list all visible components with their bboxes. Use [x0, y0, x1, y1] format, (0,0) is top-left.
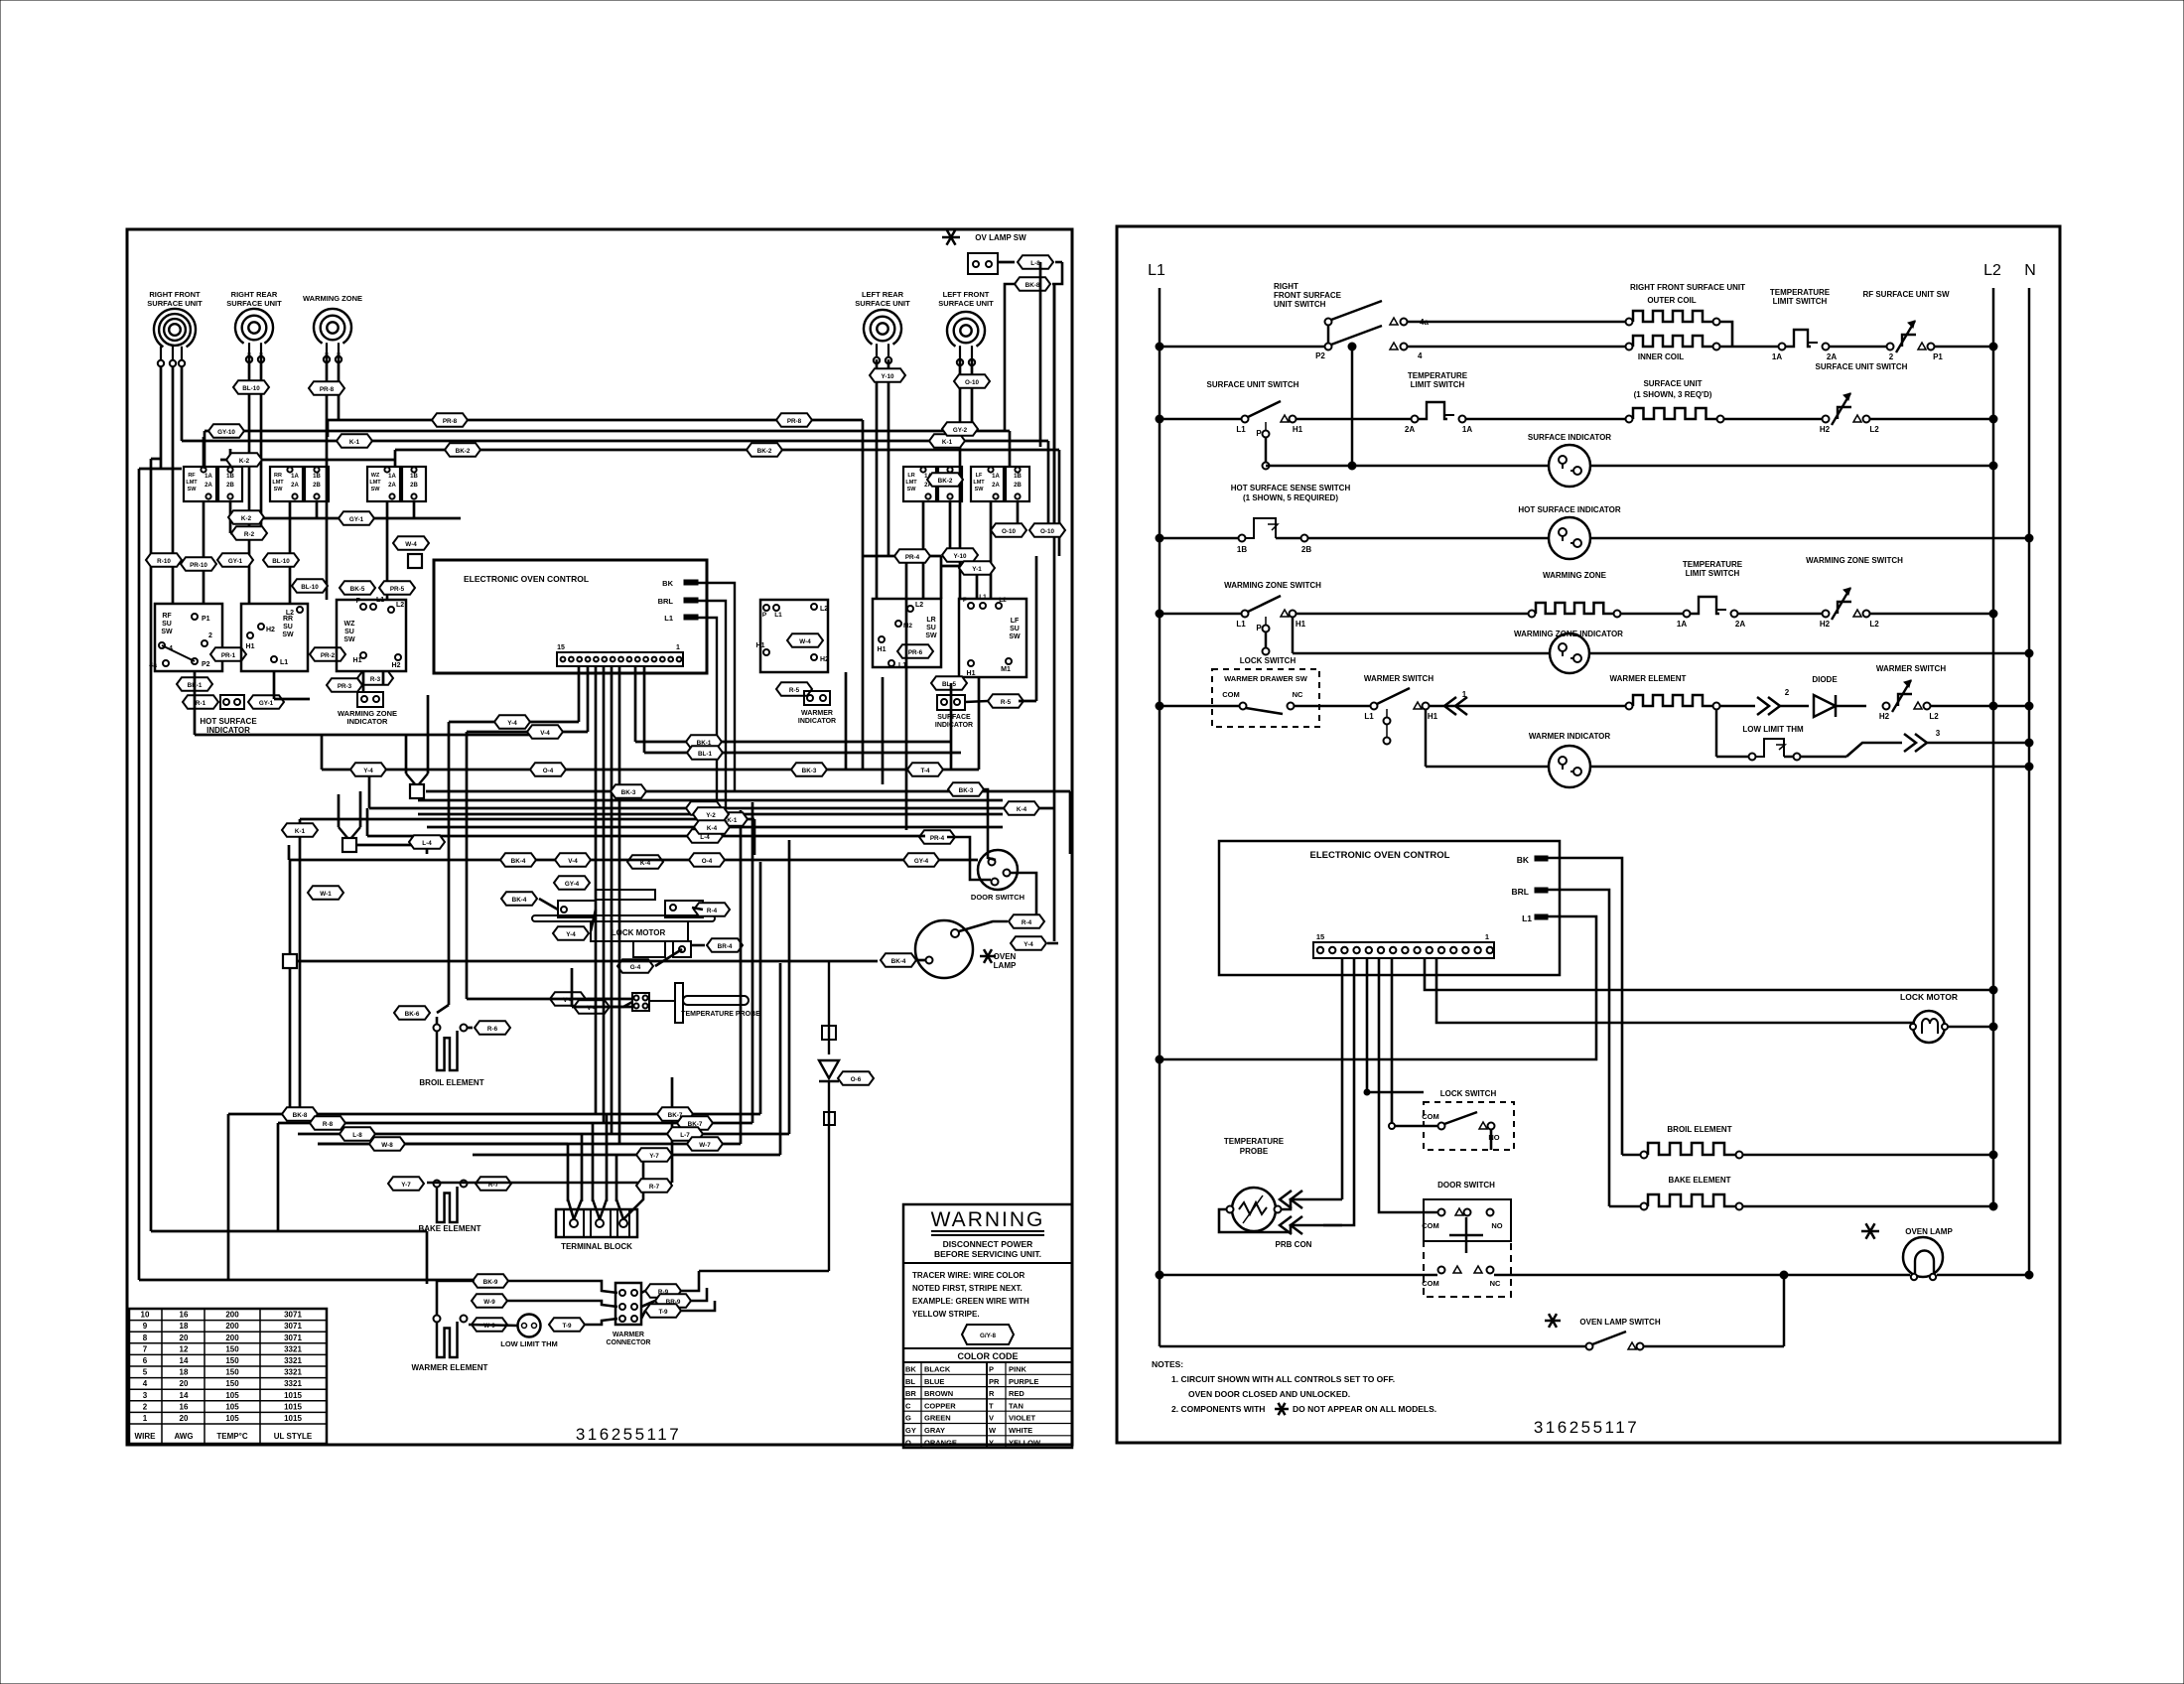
svg-text:T-9: T-9 — [658, 1309, 668, 1316]
svg-text:16: 16 — [180, 1402, 189, 1411]
svg-text:(1 SHOWN, 3 REQ'D): (1 SHOWN, 3 REQ'D) — [1634, 390, 1712, 399]
svg-text:3071: 3071 — [284, 1311, 302, 1320]
connector BL-10 — [292, 579, 328, 593]
svg-text:BLUE: BLUE — [924, 1377, 944, 1386]
svg-text:105: 105 — [225, 1414, 239, 1423]
svg-text:20: 20 — [180, 1333, 189, 1342]
wire — [612, 1002, 632, 1007]
connector PR-4 — [894, 549, 930, 563]
svg-text:GY-2: GY-2 — [953, 427, 968, 434]
svg-text:HOT SURFACE INDICATOR: HOT SURFACE INDICATOR — [1518, 505, 1620, 514]
connector BK-2 — [445, 443, 480, 457]
svg-text:PR-8: PR-8 — [787, 418, 802, 425]
connector L-4 — [687, 829, 723, 843]
svg-text:2B: 2B — [226, 483, 234, 489]
svg-text:H2: H2 — [266, 627, 275, 633]
svg-text:L1: L1 — [376, 597, 384, 604]
temperature probe — [675, 983, 683, 1023]
svg-text:NOTES:: NOTES: — [1152, 1359, 1183, 1369]
wire — [274, 698, 310, 701]
wire warmer element top — [437, 1281, 473, 1315]
svg-text:SU: SU — [283, 624, 293, 631]
diode — [822, 1026, 836, 1040]
svg-text:COPPER: COPPER — [924, 1401, 956, 1410]
svg-text:2A: 2A — [205, 483, 212, 489]
connector W-1 — [308, 886, 343, 900]
svg-text:K-1: K-1 — [349, 439, 360, 446]
connector BK-1 — [686, 735, 722, 749]
connector BK-4 lamp — [881, 953, 916, 967]
svg-text:H2: H2 — [820, 656, 829, 663]
wire — [578, 666, 581, 722]
connector GY-10 — [208, 424, 244, 438]
svg-text:3321: 3321 — [284, 1379, 302, 1388]
connector BK-5 — [340, 581, 375, 595]
connector GY-2 — [942, 422, 978, 436]
svg-text:TEMPERATURE: TEMPERATURE — [1683, 560, 1743, 569]
svg-text:14: 14 — [180, 1356, 189, 1365]
connector K-2 — [228, 510, 264, 524]
svg-text:P1: P1 — [202, 616, 210, 623]
junction — [283, 954, 297, 968]
connector V-4 — [527, 725, 563, 739]
svg-text:SW: SW — [975, 487, 985, 492]
svg-text:PR-8: PR-8 — [320, 386, 335, 393]
connector PR-8 — [309, 381, 344, 395]
svg-text:TEMPERATURE PROBE: TEMPERATURE PROBE — [681, 1011, 760, 1018]
wire gauge table — [129, 1309, 327, 1444]
svg-text:SW: SW — [274, 487, 284, 492]
svg-text:TEMP°C: TEMP°C — [216, 1432, 247, 1441]
svg-text:L2: L2 — [286, 610, 294, 617]
svg-text:V: V — [989, 1414, 994, 1423]
connector Y-2 — [693, 807, 729, 821]
svg-text:2: 2 — [1785, 688, 1790, 697]
wire — [539, 899, 558, 910]
svg-text:L1: L1 — [280, 659, 288, 666]
svg-text:OVEN: OVEN — [994, 952, 1017, 961]
wire — [328, 419, 863, 422]
svg-text:SW: SW — [188, 487, 198, 492]
connector BK-9 — [473, 1274, 508, 1288]
svg-text:W-1: W-1 — [320, 891, 332, 898]
svg-text:15: 15 — [557, 644, 565, 651]
wire — [289, 968, 292, 1114]
svg-text:DISCONNECT POWER: DISCONNECT POWER — [943, 1239, 1033, 1249]
svg-text:SW: SW — [282, 631, 294, 638]
connector Y-4 — [686, 801, 722, 815]
svg-text:RED: RED — [1009, 1389, 1024, 1398]
svg-text:COM: COM — [1222, 690, 1240, 699]
wire — [949, 501, 952, 556]
connector PR-5 — [379, 581, 415, 595]
svg-text:RIGHT FRONT SURFACE UNIT: RIGHT FRONT SURFACE UNIT — [1630, 283, 1745, 292]
svg-text:SU: SU — [1010, 626, 1020, 632]
svg-text:LR: LR — [926, 617, 935, 624]
svg-text:2A: 2A — [992, 483, 1000, 489]
svg-text:LF: LF — [1011, 618, 1020, 625]
connector Y-7 — [636, 1148, 672, 1162]
svg-text:PR-4: PR-4 — [930, 835, 945, 842]
svg-text:H1: H1 — [967, 670, 976, 677]
svg-text:GY-1: GY-1 — [228, 558, 243, 565]
wire — [386, 501, 389, 600]
svg-text:BK-8: BK-8 — [1025, 282, 1040, 289]
svg-text:V-4: V-4 — [568, 858, 578, 865]
svg-text:L2: L2 — [1929, 712, 1939, 721]
svg-text:P: P — [989, 1365, 994, 1374]
connector Y-4 lamp — [1011, 936, 1046, 950]
svg-text:O: O — [905, 1438, 911, 1447]
wire rung1 upper branch — [1408, 321, 1629, 324]
svg-text:WARNING: WARNING — [931, 1208, 1045, 1231]
junction — [342, 838, 356, 852]
connector BK-2 — [747, 443, 782, 457]
svg-text:L2: L2 — [1869, 425, 1879, 434]
svg-text:BK: BK — [662, 579, 673, 588]
connector R-10 — [146, 553, 182, 567]
svg-text:3071: 3071 — [284, 1333, 302, 1342]
svg-text:OUTER COIL: OUTER COIL — [1647, 296, 1696, 305]
svg-text:SURFACE UNIT: SURFACE UNIT — [938, 299, 994, 308]
wire — [965, 701, 988, 702]
wire — [905, 556, 908, 830]
svg-text:BR-4: BR-4 — [718, 943, 733, 950]
wire — [418, 773, 428, 785]
svg-text:T: T — [989, 1401, 994, 1410]
wire — [260, 352, 263, 533]
svg-text:18: 18 — [180, 1322, 189, 1331]
svg-text:H2: H2 — [392, 662, 401, 669]
wire — [182, 440, 1048, 443]
wire — [449, 721, 579, 724]
wire — [405, 735, 408, 773]
svg-text:H2: H2 — [1820, 425, 1831, 434]
wire — [998, 261, 1015, 264]
svg-text:H2: H2 — [1820, 620, 1831, 629]
svg-text:1B: 1B — [410, 474, 418, 480]
wire — [339, 827, 348, 839]
svg-text:K-1: K-1 — [295, 828, 306, 835]
wire — [469, 1325, 517, 1326]
terminal block — [556, 1209, 637, 1237]
svg-text:K-2: K-2 — [241, 515, 252, 522]
svg-text:O-10: O-10 — [965, 379, 979, 386]
svg-text:SURFACE UNIT SWITCH: SURFACE UNIT SWITCH — [1207, 380, 1299, 389]
wire — [427, 826, 1003, 829]
svg-text:BRL: BRL — [658, 597, 674, 606]
svg-text:SURFACE UNIT SWITCH: SURFACE UNIT SWITCH — [1816, 362, 1908, 371]
terminal strip 15..1 — [1313, 942, 1494, 958]
wire — [572, 1006, 632, 1009]
svg-text:H2: H2 — [1879, 712, 1890, 721]
connector BK-4 — [500, 853, 536, 867]
wire — [473, 1154, 780, 1157]
connector V-4b — [574, 1000, 610, 1014]
connector BK-8 — [282, 1107, 318, 1121]
wire — [289, 860, 292, 954]
wire — [603, 666, 606, 1123]
wire — [426, 1231, 429, 1284]
svg-text:105: 105 — [225, 1402, 239, 1411]
wire — [338, 352, 341, 420]
svg-text:1A: 1A — [291, 474, 299, 480]
svg-text:INDICATOR: INDICATOR — [347, 717, 389, 726]
svg-text:L1: L1 — [1364, 712, 1374, 721]
wire — [321, 735, 324, 770]
svg-text:H1: H1 — [878, 646, 887, 653]
svg-text:T-4: T-4 — [920, 768, 930, 774]
svg-text:L1: L1 — [979, 594, 987, 601]
limit switch RR LMT SW — [270, 467, 303, 501]
wire — [950, 683, 953, 770]
wire — [753, 819, 756, 855]
connector W-4 — [393, 536, 429, 550]
svg-text:316255117: 316255117 — [576, 1425, 681, 1444]
svg-text:BK-3: BK-3 — [621, 789, 636, 796]
wire — [366, 808, 369, 836]
limit switch LR LMT SW — [903, 467, 936, 501]
svg-text:INDICATOR: INDICATOR — [798, 718, 836, 725]
svg-text:150: 150 — [225, 1344, 239, 1353]
wire — [413, 501, 416, 518]
svg-text:UNIT SWITCH: UNIT SWITCH — [1274, 300, 1326, 309]
svg-text:BL-1: BL-1 — [698, 751, 712, 758]
connector W-9 — [472, 1318, 507, 1332]
svg-text:LR: LR — [907, 473, 914, 479]
svg-text:GY-10: GY-10 — [217, 429, 235, 436]
svg-text:BK: BK — [1517, 855, 1530, 865]
wire to lock switch — [1392, 1125, 1437, 1128]
svg-text:SURFACE UNIT: SURFACE UNIT — [147, 299, 203, 308]
wire — [468, 1027, 473, 1030]
svg-text:CONNECTOR: CONNECTOR — [607, 1339, 651, 1346]
wire — [941, 565, 977, 568]
connector O-10 — [1029, 523, 1065, 537]
svg-text:L1: L1 — [1236, 425, 1246, 434]
svg-text:BLACK: BLACK — [924, 1365, 951, 1374]
svg-text:RF: RF — [188, 473, 196, 479]
connector GY-4 — [903, 853, 939, 867]
svg-text:LIMIT SWITCH: LIMIT SWITCH — [1686, 569, 1740, 578]
wire — [229, 501, 232, 533]
wire BK to broil — [1548, 858, 1622, 1155]
svg-text:P: P — [1256, 624, 1262, 632]
svg-text:1: 1 — [1485, 932, 1489, 941]
warning box — [903, 1204, 1072, 1448]
svg-text:L2: L2 — [1983, 262, 2001, 279]
wire — [427, 1182, 672, 1185]
svg-text:150: 150 — [225, 1379, 239, 1388]
connector R-4b — [694, 903, 730, 916]
connector PR-1 — [210, 647, 246, 661]
svg-text:BR: BR — [905, 1389, 916, 1398]
connector GY-1 — [339, 511, 374, 525]
wire — [947, 837, 991, 880]
svg-text:G: G — [905, 1414, 911, 1423]
limit switch RF LMT SW — [184, 467, 216, 501]
wire — [959, 359, 962, 599]
svg-text:LMT: LMT — [272, 480, 284, 486]
wire — [203, 437, 205, 467]
wire — [248, 352, 251, 604]
door switch — [978, 850, 1018, 890]
svg-text:L2: L2 — [396, 602, 404, 609]
svg-text:OVEN DOOR CLOSED AND UNLOCKED.: OVEN DOOR CLOSED AND UNLOCKED. — [1188, 1389, 1350, 1399]
wire — [318, 1143, 568, 1146]
svg-text:BROIL ELEMENT: BROIL ELEMENT — [419, 1078, 483, 1087]
connector BK-2 — [927, 473, 963, 487]
connector BK-1 — [177, 677, 212, 691]
connector BR-9 — [655, 1294, 691, 1308]
wire — [937, 769, 979, 772]
wire — [418, 813, 1003, 816]
svg-text:BROIL ELEMENT: BROIL ELEMENT — [1667, 1125, 1731, 1134]
wire — [587, 666, 590, 732]
wire — [591, 910, 596, 931]
svg-text:INDICATOR: INDICATOR — [935, 722, 973, 729]
svg-text:200: 200 — [225, 1333, 239, 1342]
svg-text:15: 15 — [1316, 932, 1324, 941]
connector BK-1 — [712, 812, 748, 826]
wire — [751, 802, 754, 1123]
svg-text:L-4: L-4 — [422, 840, 432, 847]
svg-text:1: 1 — [143, 1414, 148, 1423]
warmer element — [434, 1316, 441, 1323]
svg-text:BK-2: BK-2 — [456, 448, 471, 455]
svg-text:TERMINAL BLOCK: TERMINAL BLOCK — [561, 1242, 632, 1251]
wire — [1053, 284, 1056, 941]
electronic oven control box — [1219, 841, 1560, 975]
svg-text:R-8: R-8 — [323, 1121, 334, 1128]
svg-text:SURFACE UNIT: SURFACE UNIT — [855, 299, 910, 308]
connector BK-3 — [791, 763, 827, 776]
connector L-8 — [340, 1127, 375, 1141]
connector R-2 — [231, 526, 267, 540]
connector K-4 — [694, 820, 730, 834]
svg-text:200: 200 — [225, 1311, 239, 1320]
svg-text:PROBE: PROBE — [1240, 1147, 1269, 1156]
wire — [318, 1143, 741, 1146]
svg-text:SU: SU — [344, 629, 354, 635]
wire — [368, 770, 371, 808]
svg-text:RR: RR — [283, 616, 293, 623]
connector K-1 — [282, 823, 318, 837]
svg-text:8: 8 — [143, 1333, 148, 1342]
wire L1 from EOC — [1160, 916, 1596, 1059]
wire — [1053, 284, 1056, 530]
switch box RR SU SW — [241, 604, 308, 671]
wire — [643, 666, 646, 753]
wire — [418, 799, 1003, 802]
wire — [1005, 284, 1015, 431]
connector O-6 — [838, 1071, 874, 1085]
wire — [595, 666, 598, 1114]
limit switch WZ LMT SW — [367, 467, 400, 501]
svg-text:20: 20 — [180, 1379, 189, 1388]
svg-text:SW: SW — [161, 629, 173, 635]
svg-text:P1: P1 — [1933, 352, 1943, 361]
surface indicator — [931, 676, 967, 690]
wire — [1019, 700, 1036, 703]
wire — [326, 352, 329, 600]
svg-text:PR-8: PR-8 — [443, 418, 458, 425]
svg-text:Y-10: Y-10 — [882, 373, 894, 380]
svg-text:TEMPERATURE: TEMPERATURE — [1224, 1137, 1285, 1146]
low limit thermostat — [518, 1315, 541, 1337]
wire — [382, 671, 385, 685]
warming zone indicator — [327, 678, 362, 692]
svg-text:W: W — [989, 1426, 997, 1435]
svg-text:K-4: K-4 — [1017, 806, 1027, 813]
wire — [297, 960, 878, 963]
oven lamp switch — [1545, 1320, 1561, 1323]
svg-text:P: P — [963, 597, 968, 604]
svg-text:K-1: K-1 — [942, 439, 953, 446]
connector Y-7 — [388, 1177, 424, 1191]
svg-text:BK-8: BK-8 — [293, 1112, 308, 1119]
wire — [571, 968, 574, 1007]
svg-text:R-2: R-2 — [244, 531, 255, 538]
connector Y-10 — [870, 368, 905, 382]
wire — [976, 566, 979, 599]
limit switch LF LMT SW — [971, 467, 1004, 501]
wire — [634, 666, 637, 742]
wire — [1035, 807, 1054, 810]
svg-text:BL-5: BL-5 — [942, 681, 956, 688]
wire — [1017, 501, 1020, 533]
svg-text:O-10: O-10 — [1002, 528, 1016, 535]
wire — [426, 790, 1070, 793]
svg-text:LOCK MOTOR: LOCK MOTOR — [1900, 992, 1958, 1002]
svg-text:RR: RR — [274, 473, 282, 479]
wire — [698, 618, 717, 836]
connector R-5 — [776, 682, 812, 696]
svg-text:L-7: L-7 — [680, 1132, 690, 1139]
wire — [779, 963, 782, 1155]
wire — [581, 1134, 584, 1201]
wire — [588, 998, 612, 1001]
svg-text:OVEN LAMP SWITCH: OVEN LAMP SWITCH — [1579, 1318, 1660, 1327]
svg-text:DIODE: DIODE — [1812, 675, 1838, 684]
wire — [203, 501, 205, 604]
wire BRL to bake — [1548, 890, 1609, 1206]
svg-text:ELECTRONIC OVEN CONTROL: ELECTRONIC OVEN CONTROL — [464, 574, 589, 584]
svg-text:COLOR CODE: COLOR CODE — [957, 1351, 1018, 1361]
wire — [1011, 873, 1036, 923]
wire — [160, 367, 163, 459]
wire — [228, 1113, 760, 1116]
connector BK-3 — [948, 782, 984, 796]
connector Y-4 — [494, 715, 530, 729]
svg-text:P: P — [762, 612, 767, 619]
svg-text:SURFACE: SURFACE — [937, 714, 971, 721]
connector BR-4 — [707, 938, 743, 952]
wire — [299, 819, 302, 1114]
svg-text:H1: H1 — [1428, 712, 1438, 721]
svg-text:SW: SW — [925, 632, 937, 639]
svg-text:PINK: PINK — [1009, 1365, 1027, 1374]
svg-text:NO: NO — [1491, 1221, 1502, 1230]
svg-text:WARMER SWITCH: WARMER SWITCH — [1364, 674, 1433, 683]
svg-text:1A: 1A — [1772, 352, 1782, 361]
warmer connector — [615, 1283, 641, 1325]
svg-text:12: 12 — [180, 1344, 189, 1353]
wire — [235, 517, 461, 520]
svg-text:GY-4: GY-4 — [565, 881, 580, 888]
svg-text:2A: 2A — [1827, 352, 1837, 361]
wire — [204, 431, 206, 469]
